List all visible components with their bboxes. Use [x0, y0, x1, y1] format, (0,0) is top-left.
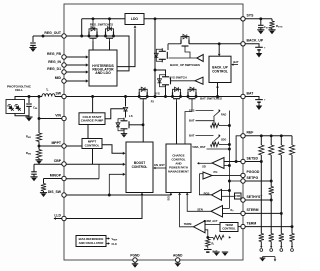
pin MID	[62, 79, 66, 83]
wire TERM control to TERM pin	[238, 226, 243, 228]
svg-text:LS: LS	[129, 114, 133, 118]
wire STERM tap	[245, 212, 281, 214]
buffer backup switch driver	[197, 55, 203, 62]
svg-text:DIS: DIS	[167, 197, 170, 201]
ground internal 1	[213, 251, 219, 253]
wire SEN output to charge control	[187, 195, 211, 211]
svg-text:AGND: AGND	[173, 254, 183, 258]
wire CBP to MPPT control and boost control	[64, 163, 124, 165]
resistor chain bottoms	[259, 234, 264, 242]
svg-text:FCB: FCB	[235, 196, 240, 198]
diode D1 low-side	[124, 95, 127, 98]
wire REG_IN arrow	[64, 64, 86, 66]
resistor R1 internal	[213, 117, 215, 124]
svg-text:BAT: BAT	[233, 60, 239, 64]
ground reference bracket	[263, 256, 276, 258]
pin PGND	[133, 258, 137, 262]
pin LLD	[62, 216, 66, 220]
resistor chain 2 mid	[269, 187, 274, 195]
pin REG_OUT	[62, 34, 66, 38]
svg-text:REG_OUT: REG_OUT	[44, 31, 62, 35]
svg-text:SW: SW	[55, 91, 61, 95]
svg-text:VIN: VIN	[55, 113, 61, 117]
wire SETPG to bus	[229, 180, 243, 182]
wire MPPT control to boost control	[102, 145, 124, 154]
svg-text:SETHYST: SETHYST	[247, 195, 264, 199]
svg-text:MANAGEMENT: MANAGEMENT	[168, 170, 189, 174]
capacitor CBP external	[34, 163, 64, 165]
wire CLK out	[106, 243, 108, 245]
svg-text:TERM: TERM	[247, 221, 257, 225]
wire DIS_SW branch to boost control	[109, 174, 123, 195]
block TERM control	[220, 223, 238, 232]
pin BAT	[241, 94, 245, 98]
svg-text:EN_BST: EN_BST	[154, 163, 165, 167]
resistor chain 1 top	[260, 136, 262, 145]
resistor RMINOP external	[44, 178, 65, 180]
LLD input arrow	[54, 218, 64, 220]
pin SETSD	[241, 159, 245, 163]
svg-text:VINA_RST: VINA_RST	[192, 145, 206, 149]
block cold start charge pump	[79, 113, 105, 125]
svg-text:SEN: SEN	[197, 207, 203, 211]
wire sense to SEN comparator	[223, 208, 230, 210]
ground backup battery	[256, 53, 263, 58]
svg-text:AND LDO: AND LDO	[95, 71, 111, 75]
svg-text:REG_IN: REG_IN	[48, 60, 61, 64]
wire sense bus to SD comparator	[224, 165, 229, 167]
wire SETHYST tap	[245, 199, 271, 201]
pin AGND	[176, 258, 180, 262]
wire sense bus	[228, 111, 230, 209]
op-amp PGB comparator	[212, 190, 222, 201]
resistor RSYS	[271, 19, 273, 21]
wire SETSD tap	[245, 161, 261, 163]
op-amp LDO block	[125, 14, 144, 25]
svg-text:BACK_UP SWITCHES: BACK_UP SWITCHES	[170, 63, 200, 67]
svg-text:CONTROL: CONTROL	[85, 143, 100, 147]
svg-text:STERM: STERM	[247, 208, 259, 212]
buffer SYS switch driver	[195, 77, 203, 84]
svg-text:MPPT: MPPT	[51, 141, 61, 145]
resistor RI internal	[206, 239, 210, 247]
pin REG_IN	[62, 63, 66, 67]
svg-text:CONTROL: CONTROL	[222, 227, 236, 231]
pin STERM	[241, 211, 245, 215]
svg-text:BAT: BAT	[189, 133, 195, 137]
wire backup control to BAT rail	[217, 83, 219, 97]
wire MPPT pin	[39, 145, 64, 147]
wire STERM to SEN comparator	[223, 212, 244, 214]
svg-text:BAT: BAT	[247, 91, 255, 95]
ground internal 2	[222, 251, 228, 253]
wire SW to cold start charge pump	[91, 95, 94, 98]
wire backup rail to backup control	[218, 42, 221, 45]
svg-text:SETPG: SETPG	[247, 176, 259, 180]
wire DIS_SW to charge control	[64, 194, 171, 196]
resistor chain 3 top	[280, 136, 282, 145]
svg-text:SETSD: SETSD	[247, 156, 259, 160]
resistor chain 2 top	[270, 136, 272, 145]
wire SYS switch top	[155, 70, 166, 74]
svg-text:SYS: SYS	[247, 14, 255, 18]
wire REG_FB arrow	[64, 56, 86, 58]
terminal chain 2	[270, 246, 272, 248]
pin SYS	[241, 17, 245, 21]
resistor R2 internal	[213, 142, 215, 145]
svg-text:CBP: CBP	[54, 159, 62, 163]
transistor SYS switch	[165, 74, 167, 77]
capacitor CSYS	[260, 19, 262, 25]
svg-text:SYS SWITCH: SYS SWITCH	[169, 75, 186, 79]
wire LS gate to boost control	[129, 124, 143, 126]
resistor chain 4 top	[291, 136, 293, 145]
svg-text:MID: MID	[55, 76, 62, 80]
wire PG input loop from PGB	[199, 173, 203, 175]
wire bus to PGB input	[222, 190, 230, 192]
switch S2	[214, 136, 221, 142]
wire SYS switch to rail	[165, 88, 167, 97]
ground AGND	[177, 262, 179, 263]
wire REF bus	[236, 136, 243, 162]
pin PGOOD	[241, 173, 245, 177]
wire MINOP junction	[64, 178, 99, 180]
wire BAT switch gates to charge control	[176, 101, 178, 144]
wire cold start to MPPT control	[87, 125, 89, 139]
ground BAT battery	[256, 106, 263, 111]
pin SETPG	[241, 179, 245, 183]
pin SETHYST	[241, 198, 245, 202]
svg-text:BAT SWITCHES: BAT SWITCHES	[200, 97, 222, 101]
svg-text:PGOOD: PGOOD	[247, 170, 260, 174]
wire PV to VIN rail	[15, 97, 42, 100]
transistor BAT switch P5	[172, 92, 174, 97]
svg-text:SYS: SYS	[189, 108, 195, 112]
transistor BACK_UP switch P4 with diode	[180, 39, 182, 44]
IC boundary	[64, 4, 243, 260]
block bias reference and oscillator	[76, 236, 106, 247]
svg-text:PG: PG	[214, 170, 218, 174]
svg-text:SD: SD	[202, 165, 206, 169]
block MPPT control	[82, 139, 102, 149]
wire PG output to PGOOD	[212, 174, 243, 176]
svg-text:PGND: PGND	[130, 254, 140, 258]
battery backup external	[245, 44, 259, 47]
wire TERM tap	[245, 226, 292, 228]
pin CBP	[62, 162, 66, 166]
wire SETPG tap	[245, 180, 271, 182]
ground PGND	[134, 262, 136, 264]
wire SYS external	[245, 18, 272, 20]
wire SW rail to BAT pin	[64, 96, 243, 98]
battery symbol VBAT internal	[207, 247, 209, 249]
terminal chain 1	[260, 246, 262, 248]
wire FCB to PGB input	[222, 195, 235, 197]
wire hysteresis block to LDO	[117, 29, 135, 67]
svg-text:RAD: RAD	[221, 114, 226, 117]
op-amp PG comparator	[203, 172, 212, 179]
wire REG switch to hysteresis block	[114, 36, 130, 71]
ground below LS	[123, 132, 125, 134]
block boost control	[126, 142, 153, 193]
svg-text:BACK_UP: BACK_UP	[247, 39, 264, 43]
svg-text:PGB: PGB	[204, 191, 210, 195]
capacitor CIN	[28, 95, 31, 98]
svg-text:CHARGE PUMP: CHARGE PUMP	[81, 119, 104, 123]
wire REF external rail	[245, 135, 292, 137]
wire LDO to SYS pin	[144, 18, 243, 20]
svg-text:CONTROL: CONTROL	[132, 165, 148, 169]
transistor BACK_UP switch P3	[161, 48, 163, 51]
wire LLD to boost control	[64, 195, 142, 219]
pin BACK_UP	[241, 42, 245, 46]
svg-text:LDO: LDO	[131, 17, 139, 21]
svg-text:LLD: LLD	[54, 213, 61, 217]
wire backup sw to SYS drop	[155, 54, 156, 56]
wire VREF out	[106, 238, 108, 240]
svg-text:L: L	[46, 88, 48, 92]
svg-text:AND OSCILLATOR: AND OSCILLATOR	[79, 241, 104, 245]
wire FCB to SETHYST pin	[241, 199, 243, 200]
wire backup rail	[168, 43, 181, 45]
transistor BAT switch P6	[187, 92, 189, 97]
wire SETSD to comparator	[224, 161, 243, 163]
pin REF	[241, 134, 245, 138]
wire REG_OUT to LDO input	[64, 35, 116, 37]
wire rectifier gate to boost control	[142, 101, 144, 142]
block FCB	[235, 193, 242, 199]
block charge control and power path management	[166, 144, 191, 193]
battery BAT external	[245, 97, 259, 100]
pin MPPT	[62, 144, 66, 148]
pin REG_D1	[62, 70, 66, 74]
svg-text:BAT: BAT	[189, 119, 195, 123]
resistor divider RMPPT1 RMPPT2 on VIN	[38, 95, 41, 98]
pin DIS_SW	[62, 193, 66, 197]
svg-text:MINOP: MINOP	[50, 173, 62, 177]
wire MID arrow	[64, 80, 86, 82]
wire REG_D1 arrow	[64, 71, 86, 73]
internal divider on TERM comparator	[205, 230, 208, 238]
svg-text:DIS_SW: DIS_SW	[48, 190, 62, 194]
svg-text:CONTROL: CONTROL	[212, 69, 228, 73]
op-amp TERM comparator	[194, 221, 206, 233]
pin TERM	[241, 224, 245, 228]
pin MINOP	[62, 176, 66, 180]
svg-text:SDO: SDO	[221, 139, 226, 142]
wire VIN pin	[39, 118, 64, 120]
terminal chain 4	[291, 246, 293, 248]
wire MPPT pin to MPPT control	[64, 145, 82, 147]
svg-text:CLK: CLK	[112, 242, 117, 246]
block BACK_UP control	[209, 56, 231, 82]
pin VIN	[62, 116, 66, 120]
capacitor CREG on REG_OUT	[33, 35, 64, 37]
ground below RMPPT2	[38, 158, 40, 160]
svg-text:TERM: TERM	[225, 223, 233, 227]
wire SD output	[199, 162, 212, 164]
svg-text:REF: REF	[247, 131, 254, 135]
block hysteresis regulator and LDO U2	[89, 50, 117, 86]
switch S1	[214, 111, 221, 117]
wire cold start to LS diode	[105, 109, 126, 119]
ground below PV	[15, 114, 29, 116]
resistor switch RD with arrow	[208, 236, 213, 238]
pin REG_FB	[62, 55, 66, 59]
wire SYS drop from LDO rail	[154, 17, 157, 20]
svg-text:TERM: TERM	[184, 222, 192, 226]
svg-text:REG_FB: REG_FB	[47, 52, 61, 56]
op-amp SD comparator	[212, 158, 224, 169]
svg-text:CELL: CELL	[15, 88, 23, 92]
transistor P2 rectifier	[138, 92, 140, 97]
svg-text:TERM_ACT: TERM_ACT	[203, 219, 218, 223]
terminal chain 3	[280, 246, 282, 248]
svg-text:REG_D1: REG_D1	[47, 67, 61, 71]
pin SW	[62, 94, 66, 98]
transistor REG_SWITCHES P2	[105, 32, 107, 37]
op-amp SEN comparator	[211, 206, 223, 218]
